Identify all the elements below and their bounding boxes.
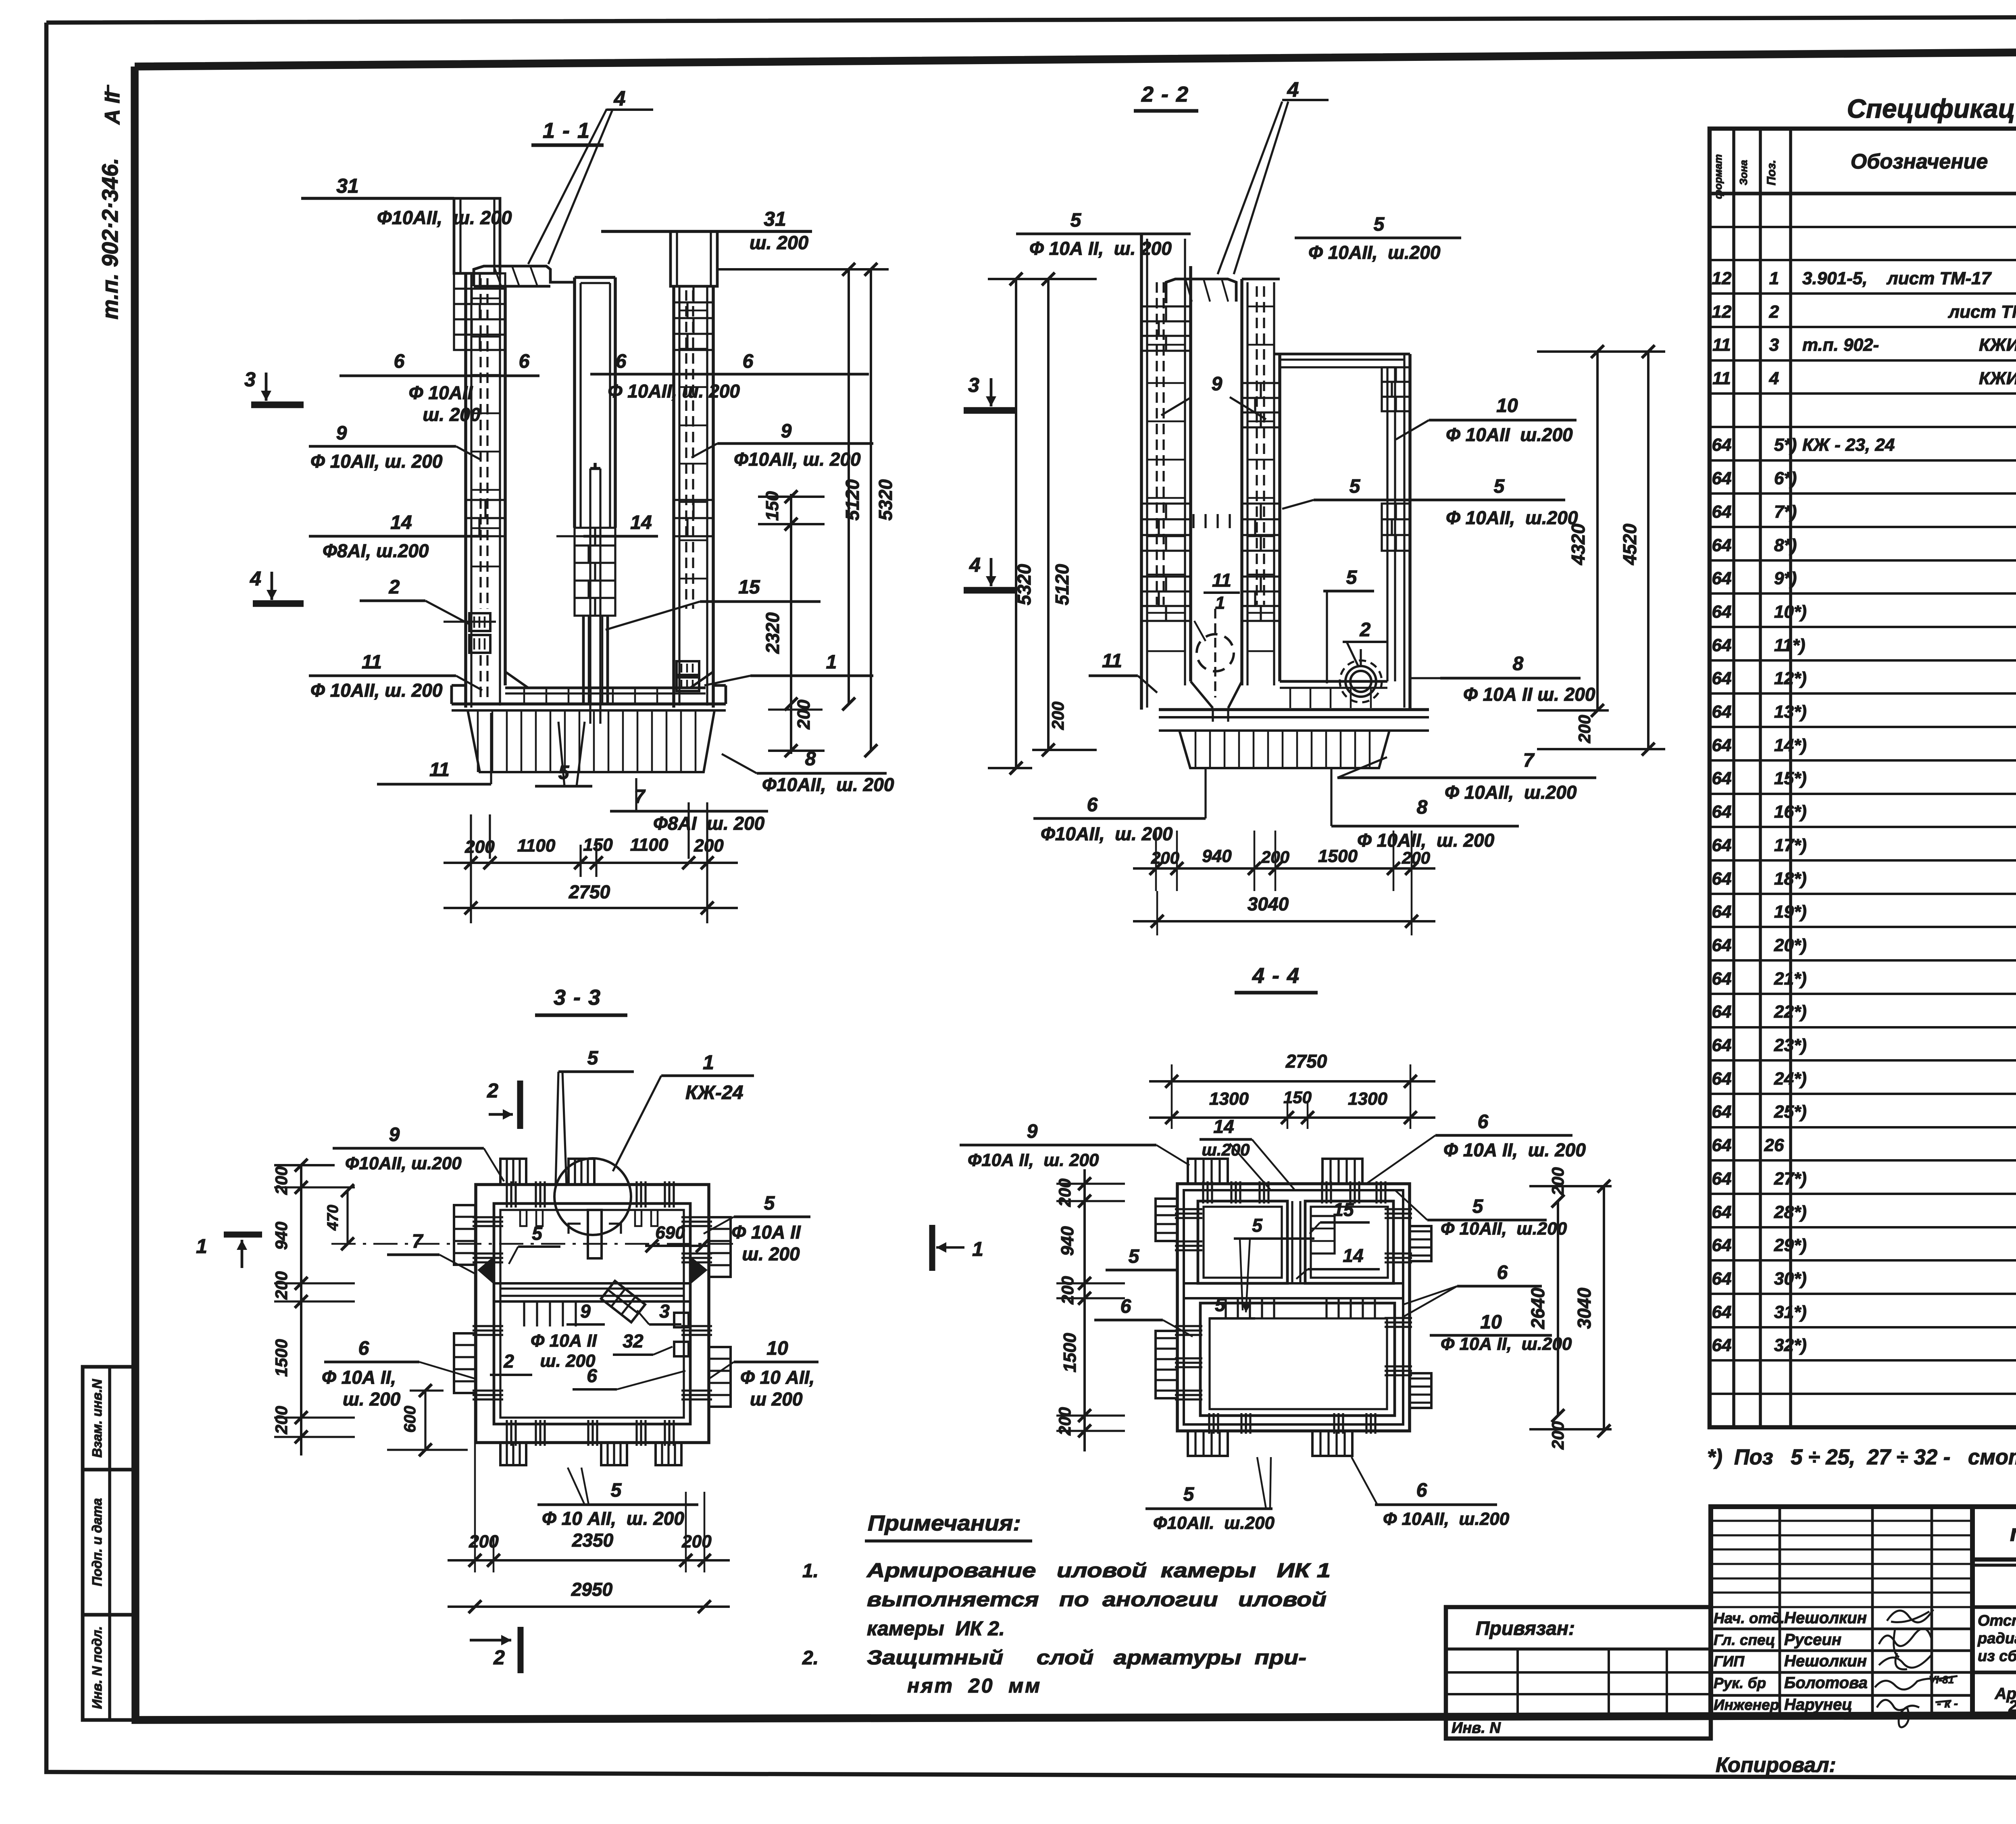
section 2-2 cap slab (1166, 279, 1236, 303)
svg-text:Ф 10АII, ш. 200: Ф 10АII, ш. 200 (310, 680, 443, 701)
svg-text:11: 11 (1712, 369, 1731, 388)
svg-text:4: 4 (250, 567, 261, 590)
section 3-3 rebar comb below middle wall (523, 1301, 525, 1326)
section 1-1 right wall stirrups (679, 310, 707, 312)
svg-text:5: 5 (587, 1047, 599, 1069)
section 2-2 walls masonry lower (1141, 577, 1191, 621)
svg-text:лист ТМ - 15: лист ТМ - 15 (1948, 302, 2016, 322)
svg-text:18*): 18*) (1774, 869, 1807, 889)
section 2-2 left wall rebar (1156, 282, 1158, 605)
svg-text:5: 5 (532, 1223, 543, 1244)
svg-text:6: 6 (358, 1338, 369, 1359)
section 4-4 outer square (1177, 1184, 1410, 1431)
svg-text:ш 200: ш 200 (750, 1389, 803, 1410)
svg-text:Отстойники канализационные: Отстойники канализационные (1978, 1612, 2016, 1629)
svg-text:6: 6 (1087, 794, 1098, 816)
section 3-3 outer tabs bottom (500, 1443, 526, 1465)
svg-text:5: 5 (611, 1480, 622, 1501)
svg-text:64: 64 (1712, 1035, 1732, 1055)
svg-text:КЖ - 23, 24: КЖ - 23, 24 (1802, 435, 1895, 455)
section 4-4 left dim chain (1083, 1169, 1086, 1451)
section 1-1 top bar strip left (454, 198, 500, 273)
svg-text:16*): 16*) (1774, 802, 1807, 822)
svg-text:Спецификация камеры ИК-2.: Спецификация камеры ИК-2. (1847, 94, 2016, 123)
section 2-2 right wall (1386, 367, 1388, 681)
section 1-1 tank floor (505, 687, 706, 689)
svg-text:ГИП: ГИП (1714, 1653, 1745, 1670)
svg-text:200: 200 (1575, 715, 1594, 743)
svg-text:5: 5 (1472, 1196, 1484, 1217)
svg-text:1: 1 (1769, 269, 1779, 288)
section 4-4 rebar clusters bottom wall (1208, 1413, 1210, 1434)
svg-text:13*): 13*) (1774, 702, 1807, 722)
svg-text:Нач. отд.: Нач. отд. (1714, 1610, 1785, 1626)
svg-text:64: 64 (1712, 535, 1732, 555)
svg-text:64: 64 (1712, 1002, 1732, 1022)
svg-text:1500: 1500 (1060, 1333, 1080, 1372)
svg-text:5: 5 (1346, 567, 1358, 588)
svg-text:20*): 20*) (1774, 935, 1807, 955)
svg-text:64: 64 (1712, 869, 1732, 889)
svg-text:Ф10АII, ш. 200: Ф10АII, ш. 200 (377, 207, 512, 228)
svg-text:нят 20 мм: нят 20 мм (907, 1674, 1041, 1697)
svg-text:11: 11 (1102, 650, 1122, 672)
svg-text:64: 64 (1712, 969, 1732, 989)
title block right part frame (1972, 1507, 2016, 1715)
section 1-1 left wall stirrup ticks (471, 298, 500, 300)
section 3-3 sub dim 470 (346, 1191, 348, 1244)
svg-text:КЖИ-МН5: КЖИ-МН5 (1979, 335, 2016, 355)
svg-text:Ф 10А II ш. 200: Ф 10А II ш. 200 (1463, 684, 1595, 705)
section 3-3 section marker 2 bottom (518, 1627, 524, 1673)
svg-text:15*): 15*) (1774, 768, 1807, 788)
section 1-1 right wall (672, 286, 675, 708)
svg-text:4: 4 (969, 554, 981, 576)
svg-text:1 - 1: 1 - 1 (543, 119, 590, 143)
section 1-1 central lower wall (582, 616, 585, 704)
section 2-2 right chamber top slab (1274, 353, 1410, 356)
svg-text:т.п. 902·2·346.: т.п. 902·2·346. (97, 158, 123, 320)
section 1-1 left wall (464, 273, 467, 708)
svg-text:Ф 10 АII,: Ф 10 АII, (740, 1367, 814, 1388)
section 2-2 tank floor right chamber (1280, 680, 1387, 683)
svg-text:Обозначение: Обозначение (1851, 150, 1988, 173)
svg-text:64: 64 (1712, 935, 1732, 955)
svg-text:200: 200 (1151, 848, 1179, 867)
svg-text:Ф 10А II: Ф 10А II (731, 1222, 801, 1243)
svg-text:1: 1 (826, 652, 837, 673)
svg-text:200: 200 (694, 836, 724, 856)
section 2-2 dim 3040 (1133, 920, 1435, 922)
svg-text:11: 11 (1712, 335, 1731, 355)
svg-text:200: 200 (272, 1271, 291, 1300)
svg-text:3: 3 (659, 1301, 670, 1322)
svg-text:Нарунец: Нарунец (1784, 1696, 1852, 1714)
svg-text:Ф10АII, ш. 200: Ф10АII, ш. 200 (762, 774, 894, 795)
section 1-1 top cap slab pos 4 (474, 266, 575, 286)
svg-text:2750: 2750 (569, 881, 610, 902)
svg-text:Привязан:: Привязан: (1476, 1618, 1575, 1639)
svg-text:3 - 3: 3 - 3 (554, 985, 601, 1010)
svg-text:Ф 10АII, ш.200: Ф 10АII, ш.200 (1383, 1509, 1510, 1529)
svg-text:Инв. N подл.: Инв. N подл. (90, 1626, 104, 1709)
svg-text:Ф10А II, ш. 200: Ф10А II, ш. 200 (968, 1150, 1099, 1170)
svg-text:КЖ-24: КЖ-24 (685, 1082, 743, 1104)
section 2-2 bottom dim chain 200 940 200 1500 200 (1133, 867, 1435, 870)
section 2-2 walls masonry upper2 (1242, 383, 1280, 427)
section 3-3 centre axis (331, 1243, 738, 1245)
svg-text:5: 5 (1215, 1294, 1226, 1315)
svg-text:2350: 2350 (572, 1530, 614, 1551)
svg-text:1100: 1100 (630, 835, 669, 855)
svg-text:600: 600 (401, 1406, 419, 1433)
svg-text:19*): 19*) (1774, 902, 1807, 922)
svg-text:1: 1 (196, 1235, 207, 1258)
svg-text:21*): 21*) (1774, 969, 1807, 989)
svg-text:Примечания:: Примечания: (868, 1511, 1021, 1535)
section 1-1 right wall rebar (685, 290, 687, 609)
svg-text:9: 9 (580, 1301, 591, 1322)
svg-text:31: 31 (336, 175, 359, 197)
svg-text:1.: 1. (802, 1560, 818, 1582)
svg-text:28*): 28*) (1774, 1202, 1807, 1222)
svg-text:9: 9 (1027, 1121, 1038, 1142)
svg-text:200: 200 (272, 1406, 291, 1435)
svg-text:940: 940 (1202, 846, 1232, 866)
svg-text:1500: 1500 (1318, 846, 1358, 866)
section 2-2 funnel at left shaft bottom (1191, 681, 1213, 708)
svg-text:2: 2 (503, 1351, 514, 1372)
svg-text:64: 64 (1712, 435, 1732, 455)
section 1-1 dim 5120 5320 (717, 268, 889, 271)
svg-text:Ф8АI, ш.200: Ф8АI, ш.200 (323, 540, 429, 561)
svg-text:Нешолкин: Нешолкин (1784, 1652, 1867, 1670)
svg-text:64: 64 (1712, 602, 1732, 622)
svg-text:2-2. Планы 3-3, 4-4: 2-2. Планы 3-3, 4-4 (2008, 1697, 2016, 1715)
svg-text:Копировал:: Копировал: (1716, 1753, 1836, 1777)
svg-text:Рук. бр: Рук. бр (1714, 1675, 1766, 1691)
title block object name cell (1972, 1605, 2016, 1609)
svg-text:Ф 10АII, ш. 200: Ф 10АII, ш. 200 (1357, 830, 1495, 851)
section 2-2 central wall (1240, 279, 1243, 685)
title block personnel table (1711, 1507, 1972, 1715)
svg-text:64: 64 (1712, 735, 1732, 755)
svg-text:2950: 2950 (571, 1579, 613, 1600)
section 4-4 section marker 1 left (929, 1225, 935, 1271)
svg-text:4520: 4520 (1619, 523, 1640, 565)
svg-text:6: 6 (587, 1365, 597, 1386)
svg-text:64: 64 (1712, 1135, 1732, 1155)
svg-text:Ф 10АII ш.200: Ф 10АII ш.200 (1446, 424, 1573, 445)
section 1-1 base slab (452, 702, 726, 706)
section 3-3 middle dividing wall (494, 1282, 690, 1285)
svg-text:2 - 2: 2 - 2 (1141, 82, 1189, 106)
svg-text:11: 11 (429, 759, 450, 781)
svg-text:т.п. 902-: т.п. 902- (1802, 335, 1879, 355)
svg-text:10: 10 (1496, 395, 1518, 416)
svg-text:64: 64 (1712, 1202, 1732, 1222)
section 1-1 top bar strip right (671, 231, 717, 286)
section 4-4 right dims 2640 3040 (1529, 1185, 1612, 1187)
svg-text:Инв. N: Инв. N (1452, 1720, 1501, 1737)
svg-text:9: 9 (336, 423, 347, 444)
svg-text:ш. 200: ш. 200 (750, 232, 808, 253)
svg-text:64: 64 (1712, 768, 1732, 788)
section 2-2 inner comb mid (1192, 514, 1194, 528)
section 4-4 rebar clusters left wall (1175, 1208, 1202, 1210)
svg-text:64: 64 (1712, 702, 1732, 722)
svg-text:Болотова: Болотова (1784, 1674, 1868, 1692)
svg-text:64: 64 (1712, 1335, 1732, 1355)
svg-text:Ф 10АII, ш.200: Ф 10АII, ш.200 (1446, 507, 1578, 528)
svg-text:6: 6 (616, 351, 627, 372)
svg-text:6: 6 (519, 351, 530, 372)
section 2-2 right dims 4320 4520 (1537, 350, 1665, 353)
section 3-3 rebar clusters bottom wall (506, 1420, 508, 1446)
svg-text:Ф 10 АII, ш. 200: Ф 10 АII, ш. 200 (542, 1508, 684, 1529)
svg-text:32: 32 (623, 1331, 644, 1351)
svg-text:64: 64 (1712, 668, 1732, 688)
svg-text:200: 200 (1548, 1167, 1567, 1196)
svg-text:ш. 200: ш. 200 (343, 1389, 401, 1410)
section 3-3 sub dim 600 (424, 1391, 426, 1450)
svg-text:150: 150 (762, 491, 782, 521)
section 1-1 central core masonry (575, 528, 615, 616)
svg-text:Подп. и дата: Подп. и дата (90, 1498, 104, 1587)
svg-text:4: 4 (1769, 369, 1779, 388)
svg-text:2: 2 (493, 1646, 505, 1669)
svg-text:2.: 2. (802, 1647, 818, 1669)
svg-text:5: 5 (764, 1193, 775, 1214)
svg-text:2640: 2640 (1527, 1287, 1548, 1329)
svg-text:Ф8АI ш. 200: Ф8АI ш. 200 (653, 813, 765, 834)
svg-text:64: 64 (1712, 502, 1732, 522)
svg-text:9: 9 (1212, 373, 1223, 395)
svg-text:64: 64 (1712, 635, 1732, 655)
svg-text:5: 5 (1350, 476, 1361, 497)
svg-text:30*): 30*) (1774, 1269, 1807, 1289)
section 4-4 outer tabs left (1156, 1199, 1177, 1241)
section 2-2 left wall masonry top (1141, 306, 1191, 351)
svg-text:6*): 6*) (1774, 468, 1797, 488)
section 2-2 gland pos 2 (1350, 671, 1371, 692)
section 3-3 rebar clusters right wall (681, 1216, 712, 1218)
section 2-2 dashed circle pos 11-1 (1197, 634, 1234, 671)
section 3-3 left dim chain (300, 1165, 302, 1455)
svg-text:*) Поз 5 ÷ 25, 27 ÷ 32 -: *) Поз 5 ÷ 25, 27 ÷ 32 - смотри ведомост… (1707, 1445, 2016, 1469)
svg-text:31: 31 (764, 208, 786, 230)
svg-text:12: 12 (1712, 269, 1732, 288)
section 1-1 floor keys (523, 688, 525, 704)
section 2-2 central wall rebar (1256, 286, 1258, 605)
svg-text:1300: 1300 (1209, 1089, 1249, 1109)
svg-text:64: 64 (1712, 1302, 1732, 1322)
svg-text:27*): 27*) (1774, 1169, 1807, 1189)
section 3-3 centre pillar (588, 1210, 602, 1258)
svg-text:Ф 10А II, ш. 200: Ф 10А II, ш. 200 (1443, 1139, 1586, 1160)
svg-text:4: 4 (1287, 78, 1299, 102)
svg-text:15: 15 (1333, 1199, 1354, 1220)
svg-text:200: 200 (1055, 1179, 1074, 1207)
svg-text:64: 64 (1712, 1069, 1732, 1089)
section 3-3 rebar clusters top wall (506, 1181, 508, 1208)
svg-text:200: 200 (469, 1532, 499, 1551)
svg-text:3040: 3040 (1574, 1287, 1595, 1329)
svg-text:6: 6 (1478, 1111, 1489, 1133)
svg-text:470: 470 (325, 1205, 342, 1231)
section 2-2 left dims 5320 5120 (988, 278, 1097, 280)
svg-text:17*): 17*) (1774, 835, 1807, 855)
svg-text:Ф 10А II, ш.200: Ф 10А II, ш.200 (1441, 1334, 1572, 1354)
svg-text:выполняется по анологии и: выполняется по анологии иловой (867, 1588, 1327, 1611)
title block drawing name cell (1972, 1671, 2016, 1674)
svg-text:Ф10АII. ш.200: Ф10АII. ш.200 (1153, 1513, 1275, 1533)
section 3-3 bottom dim chain 200 2350 200 (474, 1206, 476, 1572)
svg-text:3: 3 (1769, 335, 1779, 355)
svg-text:64: 64 (1712, 1169, 1732, 1189)
section 1-1 dim chain 150 2320 200 (790, 494, 792, 754)
svg-text:формат: формат (1712, 154, 1724, 199)
svg-text:200: 200 (464, 837, 495, 857)
section 4-4 outer tabs right (1410, 1226, 1431, 1261)
svg-text:200: 200 (1402, 848, 1430, 867)
section 2-2 left shaft stirrup ticks (1147, 306, 1185, 308)
section 1-1 center pipe pos 15 (589, 468, 591, 724)
section 3-3 rebar clusters left wall (473, 1216, 503, 1218)
svg-text:Нешолкин: Нешолкин (1784, 1609, 1867, 1627)
svg-text:22*): 22*) (1774, 1002, 1807, 1022)
svg-text:Ф10АII, ш.200: Ф10АII, ш.200 (345, 1154, 462, 1173)
svg-text:11: 11 (1212, 570, 1231, 591)
left margin stamp boxes (83, 1367, 135, 1470)
svg-text:6: 6 (743, 351, 754, 372)
svg-text:3040: 3040 (1248, 893, 1289, 914)
svg-text:Ф 10АII: Ф 10АII (409, 382, 473, 403)
section 2-2 base dowels (1179, 731, 1389, 768)
svg-text:5: 5 (1183, 1484, 1195, 1505)
svg-text:10: 10 (766, 1338, 788, 1359)
svg-text:ш.200: ш.200 (1202, 1140, 1250, 1159)
svg-text:9: 9 (389, 1124, 400, 1145)
svg-text:9*): 9*) (1774, 568, 1797, 588)
svg-text:Ф 10А II, ш. 200: Ф 10А II, ш. 200 (1029, 238, 1172, 259)
title block signatures (1887, 1610, 1933, 1622)
section 1-1 left wall rebar (479, 278, 481, 609)
svg-text:5320: 5320 (875, 479, 896, 521)
section 3-3 outer tabs top (500, 1159, 526, 1185)
svg-text:14: 14 (1343, 1245, 1363, 1266)
svg-text:2: 2 (1769, 302, 1779, 322)
svg-text:24*): 24*) (1774, 1069, 1807, 1089)
svg-text:Взам. инв.N: Взам. инв.N (90, 1378, 104, 1458)
privyazan table (1446, 1607, 1711, 1739)
svg-text:64: 64 (1712, 468, 1732, 488)
svg-text:Зона: Зона (1737, 160, 1749, 185)
svg-text:ш. 200: ш. 200 (742, 1243, 800, 1264)
section 3-3 funnel wedges (477, 1257, 493, 1283)
svg-text:26: 26 (1764, 1135, 1784, 1155)
svg-text:5120: 5120 (1052, 564, 1073, 605)
svg-text:5320: 5320 (1014, 564, 1035, 605)
svg-text:940: 940 (272, 1222, 291, 1250)
svg-text:5: 5 (1252, 1215, 1263, 1236)
section 4-4 top dim 1300 150 1300 (1149, 1116, 1435, 1119)
section 3-3 inspection circle (554, 1158, 631, 1235)
svg-text:Ф 10А II: Ф 10А II (531, 1331, 597, 1351)
svg-text:Ф10АII, ш. 200: Ф10АII, ш. 200 (734, 449, 861, 470)
section 3-3 outer square (476, 1185, 709, 1443)
svg-text:Защитный слой арматуры: Защитный слой арматуры при- (867, 1646, 1306, 1669)
svg-text:5: 5 (1129, 1246, 1140, 1267)
svg-text:12*): 12*) (1774, 668, 1807, 688)
svg-text:32*): 32*) (1774, 1335, 1807, 1355)
svg-text:200: 200 (272, 1166, 291, 1195)
svg-text:9: 9 (781, 421, 792, 442)
svg-text:Ф 10АII, ш.200: Ф 10АII, ш.200 (1441, 1219, 1567, 1239)
svg-text:200: 200 (1261, 847, 1289, 866)
svg-text:Армирование иловой камеры: Армирование иловой камеры ИК 1 (866, 1559, 1331, 1582)
svg-text:Ф 10АII, ш. 200: Ф 10АII, ш. 200 (608, 381, 740, 402)
svg-text:3: 3 (968, 374, 979, 396)
svg-text:11*): 11*) (1774, 635, 1805, 655)
section 4-4 rebar clusters right wall (1385, 1208, 1412, 1210)
svg-text:1100: 1100 (517, 836, 556, 856)
section 4-4 comb below middle wall (1225, 1298, 1227, 1318)
svg-text:5: 5 (1494, 476, 1505, 497)
svg-text:т. п. 902-2-346: т. п. 902-2-346 (2010, 1520, 2016, 1546)
section 1-1 dim 2750 (444, 907, 738, 909)
svg-text:64: 64 (1712, 1102, 1732, 1122)
section 3-3 hanging bar pairs upper room (520, 1210, 527, 1226)
section 1-1 bottom dim chain 200 1100 150 1100 200 (470, 814, 472, 923)
section 4-4 centre vertical wall (1291, 1201, 1293, 1283)
section 1-1 left wall masonry band 2 (466, 500, 505, 536)
svg-text:2: 2 (1360, 619, 1371, 641)
section 2-2 left wall (1140, 234, 1143, 710)
section 3-3 small squares pos 32 (674, 1313, 689, 1327)
svg-text:15: 15 (738, 577, 760, 598)
svg-text:Гл. спец: Гл. спец (1714, 1632, 1775, 1648)
section 4-4 rebar clusters top wall (1202, 1181, 1204, 1204)
svg-text:64: 64 (1712, 835, 1732, 855)
svg-text:940: 940 (1058, 1226, 1077, 1256)
section 3-3 inner wall faces (494, 1204, 690, 1424)
section 3-3 diagonal ladder pos 3 (601, 1281, 645, 1322)
svg-text:6: 6 (1497, 1262, 1508, 1283)
svg-text:64: 64 (1712, 1235, 1732, 1255)
svg-text:23*): 23*) (1774, 1035, 1807, 1055)
section 4-4 middle horizontal wall (1184, 1282, 1403, 1285)
svg-text:4: 4 (614, 87, 626, 110)
section 4-4 top dim 2750 (1149, 1080, 1435, 1083)
svg-text:8: 8 (1513, 653, 1524, 675)
svg-text:64: 64 (1712, 1269, 1732, 1289)
svg-text:2750: 2750 (1285, 1051, 1327, 1072)
svg-text:2: 2 (389, 577, 400, 598)
svg-text:3.901-5, лист ТМ-17: 3.901-5, лист ТМ-17 (1802, 269, 1992, 288)
svg-text:VI-81: VI-81 (1929, 1674, 1954, 1686)
svg-text:из сборного ж/б диаметром 18м: из сборного ж/б диаметром 18м. (1978, 1648, 2016, 1665)
svg-text:1: 1 (703, 1051, 714, 1074)
svg-text:6: 6 (394, 351, 405, 372)
svg-text:8: 8 (1417, 797, 1428, 818)
svg-text:Русеин: Русеин (1784, 1631, 1841, 1649)
svg-text:14: 14 (390, 512, 412, 533)
svg-text:5120: 5120 (842, 479, 863, 521)
section 4-4 lower room (1200, 1303, 1395, 1416)
section 2-2 base slab (1159, 708, 1429, 711)
svg-text:4 - 4: 4 - 4 (1252, 964, 1300, 988)
